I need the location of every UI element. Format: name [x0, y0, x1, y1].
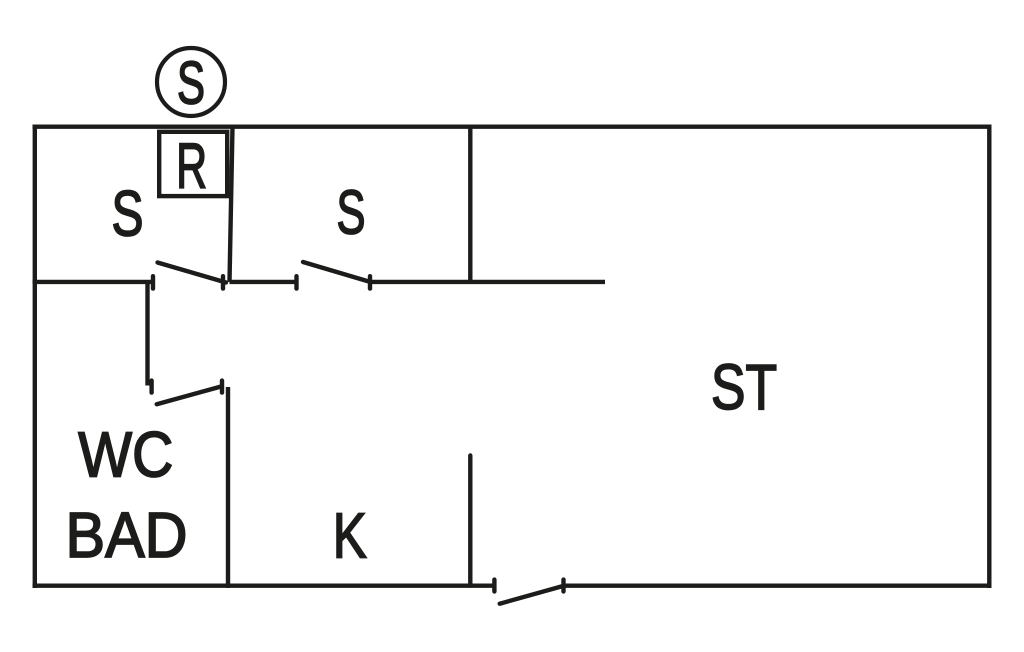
- svg-text:S: S: [177, 50, 205, 117]
- node door jamb tick 3: [294, 276, 298, 288]
- node entrance door jamb tick right: [561, 580, 565, 592]
- node R box: [159, 132, 227, 196]
- wire K-ST divider wall: [468, 456, 472, 586]
- svg-text:K: K: [333, 500, 367, 572]
- wire WC lower wall: [226, 387, 230, 588]
- wire door leaf entrance: [500, 586, 564, 604]
- wire door leaf S room 2: [303, 262, 371, 282]
- wire horizontal corridor wall segment 2: [230, 280, 297, 284]
- wire right outer wall: [987, 125, 991, 589]
- wire left outer wall: [33, 125, 37, 589]
- node door jamb tick 4: [368, 276, 372, 288]
- wire interior wall A between S rooms: [230, 127, 233, 282]
- svg-text:S: S: [337, 178, 366, 247]
- wire interior wall B right of second S room: [468, 127, 472, 282]
- node WC door jamb tick upper: [149, 381, 153, 393]
- wire bottom outer wall left segment: [33, 584, 495, 588]
- wire horizontal corridor wall segment 3: [370, 280, 605, 284]
- svg-text:S: S: [112, 178, 144, 250]
- node WC door jamb tick hinge: [220, 381, 224, 393]
- wire horizontal corridor wall segment 1: [33, 280, 154, 284]
- wire door leaf S room 1: [158, 263, 227, 283]
- wire WC upper wall: [145, 282, 149, 386]
- wire top outer wall: [33, 124, 992, 128]
- svg-text:BAD: BAD: [66, 499, 188, 571]
- node door jamb tick 1: [151, 276, 155, 288]
- wire door leaf WC: [157, 386, 222, 404]
- wire bottom outer wall right segment: [564, 584, 992, 588]
- node entrance door jamb tick left: [492, 580, 496, 592]
- svg-text:ST: ST: [711, 351, 777, 423]
- node door jamb tick 2: [221, 276, 225, 288]
- svg-text:WC: WC: [78, 418, 173, 490]
- node circled S symbol: [157, 48, 225, 116]
- svg-text:R: R: [176, 130, 207, 202]
